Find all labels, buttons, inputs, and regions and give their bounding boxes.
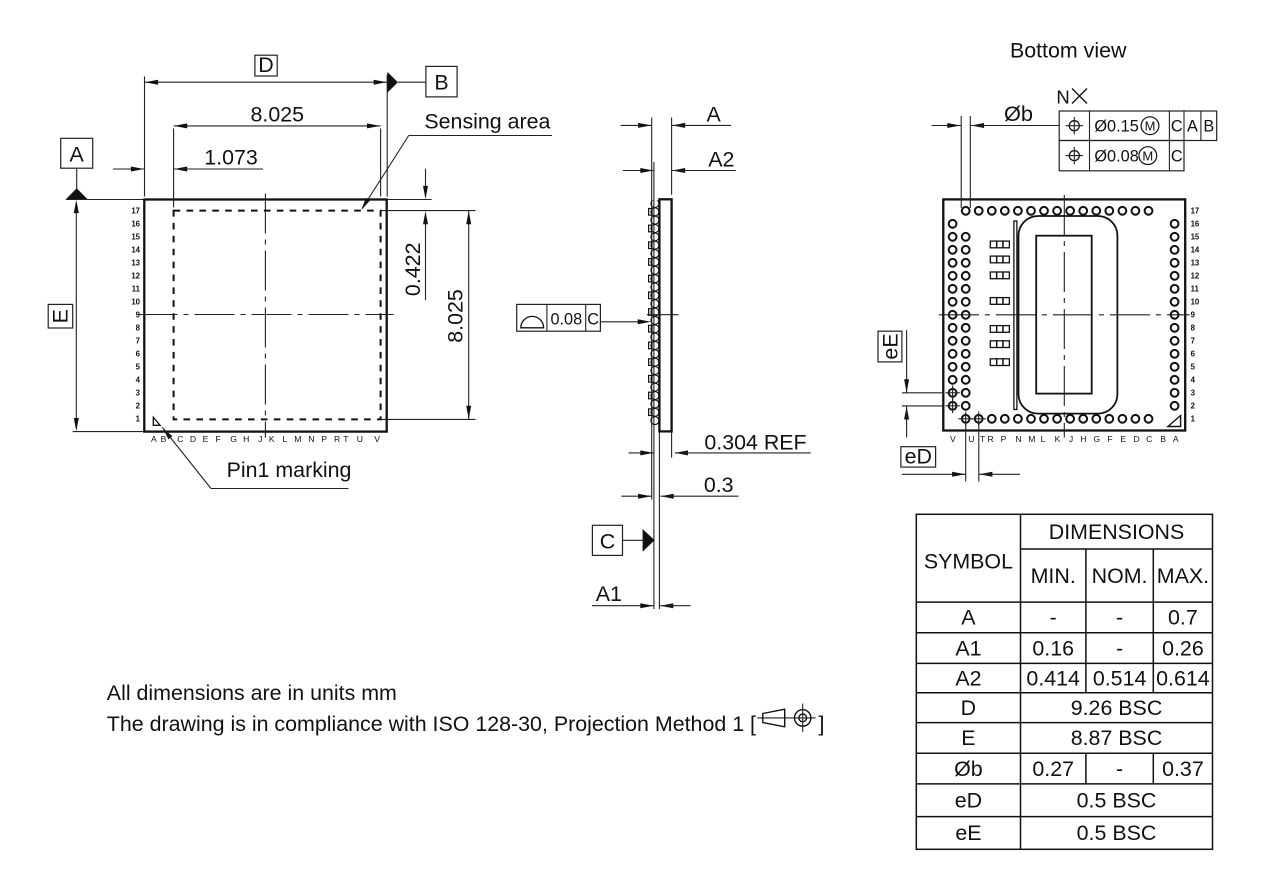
dimension eD label box [901, 447, 936, 467]
svg-text:17: 17 [131, 206, 140, 215]
svg-text:P: P [321, 434, 327, 444]
svg-text:0.16: 0.16 [1032, 636, 1074, 660]
bottom view horizontal centerline [939, 314, 1190, 316]
svg-text:eD: eD [905, 444, 932, 468]
bottom view inner rect [1036, 236, 1092, 394]
svg-text:D: D [258, 53, 273, 77]
dimension A2 side [623, 170, 654, 172]
svg-text:0.614: 0.614 [1156, 666, 1210, 690]
svg-text:13: 13 [131, 258, 140, 267]
svg-text:B: B [1160, 434, 1166, 444]
svg-text:-: - [1116, 757, 1123, 781]
svg-text:A2: A2 [955, 666, 981, 690]
dimension E label box [48, 304, 72, 328]
svg-text:M: M [294, 434, 301, 444]
svg-text:10: 10 [131, 297, 140, 306]
svg-text:A1: A1 [955, 636, 981, 660]
svg-text:C: C [177, 434, 183, 444]
svg-text:7: 7 [136, 336, 140, 345]
projection method symbol [757, 717, 815, 719]
dimension 1.073 [113, 168, 145, 170]
svg-text:M: M [1028, 434, 1035, 444]
svg-text:8: 8 [1191, 323, 1196, 332]
svg-text:eE: eE [955, 821, 981, 845]
svg-text:Sensing area: Sensing area [424, 109, 550, 133]
svg-text:8.87 BSC: 8.87 BSC [1071, 726, 1163, 750]
svg-text:0.5 BSC: 0.5 BSC [1077, 789, 1157, 813]
svg-text:N: N [1056, 86, 1069, 107]
svg-text:0.304 REF: 0.304 REF [704, 430, 806, 454]
svg-text:1: 1 [1191, 414, 1196, 423]
svg-text:6: 6 [136, 349, 141, 358]
svg-text:7: 7 [1191, 336, 1195, 345]
svg-text:A: A [961, 606, 976, 630]
side view body right extension line [671, 118, 673, 195]
svg-text:9.26 BSC: 9.26 BSC [1071, 696, 1163, 720]
svg-text:9: 9 [136, 310, 141, 319]
dimension A1 [592, 605, 654, 607]
svg-text:A: A [1173, 434, 1179, 444]
svg-text:3: 3 [136, 388, 141, 397]
bottom view vertical centerline [1063, 195, 1065, 438]
dimension 8.025 extension lines [173, 129, 175, 208]
position tolerance frame row2 [1059, 141, 1184, 171]
bottom view component pads [990, 241, 996, 248]
bottom view pin1 triangle [1168, 416, 1181, 427]
datum B symbol [387, 72, 398, 93]
svg-text:A: A [70, 143, 85, 167]
svg-text:V: V [374, 434, 380, 444]
svg-text:D: D [190, 434, 196, 444]
svg-text:F: F [1107, 434, 1112, 444]
svg-text:C: C [1171, 118, 1183, 136]
svg-text:The drawing is in compliance w: The drawing is in compliance with ISO 12… [107, 712, 756, 736]
dimension 0.422 extension lines [387, 199, 432, 201]
svg-text:-: - [1116, 606, 1123, 630]
dimension 0.422 [425, 169, 427, 188]
svg-text:A: A [706, 103, 721, 127]
datum C symbol [592, 525, 622, 555]
svg-text:eD: eD [955, 789, 982, 813]
svg-text:F: F [215, 434, 220, 444]
side view centerline [647, 314, 679, 316]
svg-text:A1: A1 [596, 582, 622, 606]
svg-text:-: - [1116, 636, 1123, 660]
surface profile callout frame [517, 304, 601, 331]
svg-text:Ø0.08: Ø0.08 [1094, 148, 1138, 166]
svg-text:G: G [230, 434, 237, 444]
top view horizontal centerline [138, 314, 394, 316]
svg-text:3: 3 [1191, 388, 1196, 397]
top view sensing area dashed rect [174, 211, 381, 420]
svg-text:M: M [1142, 149, 1153, 164]
bottom view stadium outline [1019, 216, 1118, 414]
svg-text:6: 6 [1191, 349, 1196, 358]
dimension D extension lines [144, 77, 146, 197]
svg-text:MAX.: MAX. [1157, 564, 1209, 588]
svg-text:4: 4 [1191, 375, 1196, 384]
svg-text:B: B [434, 71, 448, 95]
svg-text:C: C [600, 530, 615, 554]
svg-text:MIN.: MIN. [1031, 564, 1076, 588]
svg-text:G: G [1093, 434, 1100, 444]
dimension eE label box [878, 331, 902, 362]
svg-text:16: 16 [131, 219, 140, 228]
svg-text:Øb: Øb [954, 757, 983, 781]
svg-text:All dimensions are in units mm: All dimensions are in units mm [107, 681, 397, 705]
svg-text:14: 14 [1191, 245, 1200, 254]
dimension D line [145, 81, 388, 83]
svg-text:2: 2 [136, 401, 141, 410]
svg-text:15: 15 [1191, 232, 1200, 241]
svg-text:D: D [961, 696, 976, 720]
svg-text:J: J [258, 434, 262, 444]
svg-text:A: A [1187, 118, 1198, 136]
dimension eD [965, 424, 967, 482]
svg-text:C: C [587, 311, 599, 329]
dimension 0.3 [621, 495, 651, 497]
datum A symbol [61, 138, 93, 168]
svg-text:N: N [308, 434, 314, 444]
svg-text:11: 11 [1191, 284, 1200, 293]
bottom view datum target balls [962, 415, 970, 423]
dimension E line [75, 203, 77, 429]
dimension 8.025 line [174, 125, 381, 127]
svg-text:Pin1 marking: Pin1 marking [227, 458, 352, 482]
svg-text:-: - [1050, 606, 1057, 630]
svg-text:10: 10 [1191, 297, 1200, 306]
svg-text:NOM.: NOM. [1092, 564, 1148, 588]
dimension 8.025 vertical [468, 211, 470, 420]
svg-text:DIMENSIONS: DIMENSIONS [1049, 520, 1185, 544]
svg-text:L: L [1041, 434, 1046, 444]
svg-text:5: 5 [1191, 362, 1196, 371]
svg-text:E: E [49, 309, 73, 323]
svg-text:0.27: 0.27 [1032, 757, 1074, 781]
svg-text:H: H [243, 434, 249, 444]
dimension Øb [932, 125, 961, 127]
svg-text:T: T [980, 434, 986, 444]
svg-text:SYMBOL: SYMBOL [924, 549, 1013, 573]
svg-text:L: L [283, 434, 288, 444]
side view ball plane extension line [653, 162, 655, 609]
svg-text:1.073: 1.073 [204, 145, 258, 169]
svg-text:0.37: 0.37 [1162, 757, 1204, 781]
svg-text:B: B [161, 434, 167, 444]
svg-text:0.414: 0.414 [1026, 666, 1080, 690]
svg-text:5: 5 [136, 362, 141, 371]
svg-text:Øb: Øb [1004, 102, 1033, 126]
svg-text:R: R [334, 434, 340, 444]
svg-text:12: 12 [1191, 271, 1200, 280]
svg-text:R: R [987, 434, 993, 444]
svg-text:C: C [1171, 148, 1183, 166]
svg-text:8: 8 [136, 323, 141, 332]
svg-text:11: 11 [132, 284, 141, 293]
svg-text:0.514: 0.514 [1093, 666, 1147, 690]
svg-text:4: 4 [136, 375, 141, 384]
svg-text:T: T [343, 434, 349, 444]
svg-text:P: P [1001, 434, 1007, 444]
svg-text:12: 12 [131, 271, 140, 280]
dimension table grid [916, 514, 1212, 849]
svg-text:H: H [1080, 434, 1086, 444]
bottom view thin bar [1014, 221, 1017, 410]
bottom view package outline [943, 199, 1185, 430]
svg-text:0.08: 0.08 [550, 311, 582, 329]
svg-text:E: E [203, 434, 209, 444]
svg-text:V: V [950, 434, 956, 444]
svg-text:N: N [1015, 434, 1021, 444]
dimension Øb extension lines [960, 116, 962, 208]
svg-text:1: 1 [136, 414, 141, 423]
svg-text:A: A [151, 434, 157, 444]
bottom view ball grid [962, 207, 970, 215]
svg-text:17: 17 [1191, 206, 1200, 215]
dimension A side [621, 124, 652, 126]
svg-text:8.025: 8.025 [444, 289, 468, 343]
svg-text:8.025: 8.025 [251, 102, 305, 126]
svg-text:0.3: 0.3 [704, 473, 734, 497]
dimension 0.304 REF [629, 452, 654, 454]
svg-text:J: J [1069, 434, 1073, 444]
svg-text:C: C [1146, 434, 1152, 444]
dimension eE [906, 330, 908, 393]
svg-text:13: 13 [1191, 258, 1200, 267]
svg-text:A2: A2 [708, 147, 734, 171]
svg-text:Ø0.15: Ø0.15 [1094, 118, 1138, 136]
svg-text:E: E [961, 726, 975, 750]
svg-text:14: 14 [131, 245, 140, 254]
top view package outline [144, 200, 386, 432]
svg-text:K: K [1055, 434, 1061, 444]
svg-text:9: 9 [1191, 310, 1196, 319]
svg-text:U: U [357, 434, 363, 444]
svg-text:16: 16 [1191, 219, 1200, 228]
dimension D label box [255, 55, 277, 76]
svg-text:E: E [1120, 434, 1126, 444]
svg-text:U: U [968, 434, 974, 444]
svg-text:2: 2 [1191, 401, 1196, 410]
svg-text:0.422: 0.422 [401, 243, 425, 297]
svg-text:M: M [1145, 119, 1156, 134]
top view pin1 corner triangle [153, 417, 160, 425]
pin1 marking label [162, 427, 172, 439]
side view body [659, 199, 671, 431]
svg-text:0.7: 0.7 [1168, 606, 1198, 630]
svg-text:K: K [269, 434, 275, 444]
svg-text:eE: eE [878, 333, 902, 359]
svg-text:B: B [1203, 118, 1214, 136]
side view seating plane extension line [651, 118, 653, 500]
svg-text:0.26: 0.26 [1162, 636, 1204, 660]
svg-text:15: 15 [131, 232, 140, 241]
svg-text:D: D [1133, 434, 1139, 444]
position tolerance frame row1 [1059, 111, 1217, 141]
svg-text:0.5 BSC: 0.5 BSC [1077, 821, 1157, 845]
top view vertical centerline [264, 194, 266, 438]
svg-text:Bottom view: Bottom view [1010, 38, 1127, 62]
side view body left extension line [658, 431, 660, 609]
svg-text:]: ] [819, 712, 825, 736]
